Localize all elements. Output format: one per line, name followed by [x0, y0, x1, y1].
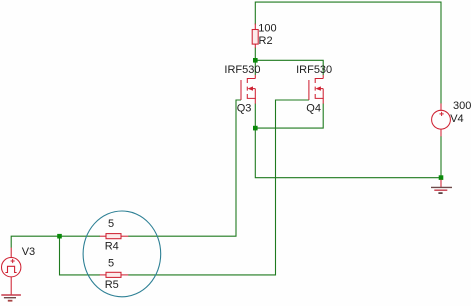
svg-text:5: 5	[108, 257, 114, 269]
svg-text:V4: V4	[450, 113, 463, 125]
wire: V4 bottom to ground node	[440, 136, 442, 178]
svg-text:IRF530: IRF530	[296, 64, 332, 76]
wire: drain node to Q4 drain	[255, 60, 323, 75]
resistor R2	[252, 24, 258, 48]
wire: source node right and up to Q4 source	[255, 104, 323, 129]
wire: source node down and right to ground/V4 node	[255, 128, 441, 178]
transistor Q3 (IRF530 NMOS)	[241, 75, 255, 104]
svg-text:R2: R2	[259, 35, 273, 47]
node: drain junction dot	[253, 58, 258, 63]
resistor R4	[100, 234, 129, 239]
svg-text:Q4: Q4	[306, 103, 321, 115]
wire: V3 top up and right to node A	[11, 236, 59, 248]
svg-text:300: 300	[453, 100, 471, 112]
svg-text:V3: V3	[22, 246, 35, 258]
svg-text:R5: R5	[105, 279, 119, 291]
svg-text:IRF530: IRF530	[224, 64, 260, 76]
wire: R5 right lead up to Q4 gate	[128, 100, 309, 275]
ground (left, node 0)	[1, 295, 21, 302]
wire: R4 right lead to Q3 gate	[128, 100, 241, 236]
svg-text:5: 5	[108, 218, 114, 230]
node A junction dot	[57, 234, 62, 239]
annotation: blue circle highlighting R4/R5	[83, 211, 161, 297]
svg-text:Q3: Q3	[237, 103, 252, 115]
voltage source V4 (DC 300)	[432, 103, 451, 136]
wire: node A to R4 left lead	[60, 235, 101, 237]
node: source junction dot	[253, 126, 258, 131]
transistor Q4 (IRF530 NMOS)	[309, 75, 323, 104]
wire: Q3 source down to source junction node	[254, 104, 256, 129]
svg-text:R4: R4	[105, 240, 119, 252]
node: ground/V4 junction dot	[439, 175, 444, 180]
wire: R2 bottom to drain junction node	[254, 48, 256, 61]
wire: drain node down to Q3 drain	[254, 60, 256, 75]
wire: top rail from R2 top to V4 top	[255, 2, 441, 103]
voltage source V3 (pulse)	[2, 248, 21, 295]
resistor R5	[100, 272, 129, 277]
wire: node A down to R5 row and to R5 left lead	[60, 236, 101, 275]
svg-text:100: 100	[258, 23, 276, 35]
ground (right, node 0)	[431, 180, 452, 195]
